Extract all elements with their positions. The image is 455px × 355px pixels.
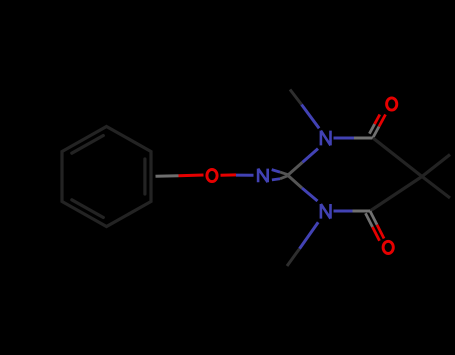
bond C2-N3 (nitrogen half blue): [302, 188, 318, 201]
double bond C6=O3 line 2 carbon half: [369, 124, 374, 134]
bond phenyl-O (carbon half gray): [156, 174, 179, 178]
bond O1-N2 (oxygen half red): [221, 173, 237, 176]
bond C4-C5 (dark C-C): [370, 177, 422, 212]
atom O1 (ether oxygen): [207, 169, 217, 181]
bond C2-N1 (carbon half gray): [288, 162, 303, 175]
double bond C6=O3 line 1 oxygen half: [379, 115, 386, 127]
bond O1-N2 (nitrogen half blue): [236, 174, 254, 177]
atom N1 (top ring nitrogen): [321, 131, 331, 146]
double bond C4=O4 line 1 carbon half: [370, 211, 377, 225]
atom N2 (oxime nitrogen): [258, 169, 268, 183]
bond N3-C4 (nitrogen half blue): [334, 210, 353, 213]
bond N3-C4 (carbon half gray): [353, 210, 371, 213]
bond C6-C5 (dark C-C): [373, 138, 422, 177]
double bond C4=O4 line 2 carbon half: [366, 213, 373, 227]
bond N1-C6 (carbon half gray): [354, 137, 373, 140]
double bond C6=O3 line 1 carbon half: [373, 127, 380, 139]
benzene ring (phenyl, dark C-C bonds): [62, 127, 151, 227]
bond N3-CH3 (carbon half dark): [287, 249, 300, 266]
bond C5-methyl upper stub (dark): [422, 155, 450, 177]
double bond N2=C2 lower line: [272, 179, 280, 180]
double bond C4=O4 line 2 oxygen half: [373, 227, 380, 241]
bond phenyl-O (oxygen half red): [179, 174, 204, 178]
atom N3 (bottom ring nitrogen): [321, 204, 331, 219]
bond C2-N1 (nitrogen half blue): [303, 149, 319, 163]
atom O4 (bottom carbonyl oxygen): [383, 241, 393, 253]
atom O3 (top carbonyl oxygen): [387, 98, 397, 110]
bond N1-CH3 (carbon half dark): [290, 90, 302, 105]
bond C2-N3 (carbon half gray): [288, 176, 302, 189]
double bond C6=O3 line 2 oxygen half: [375, 115, 380, 125]
bond C5-methyl lower stub (dark): [422, 177, 450, 199]
bond N3-CH3 (nitrogen half blue): [300, 222, 319, 249]
double bond N2=C2 upper line: [272, 170, 280, 173]
bond N1-C6 (nitrogen half blue): [334, 137, 355, 140]
double bond C4=O4 line 1 oxygen half: [377, 225, 384, 239]
bond N1-CH3 (nitrogen half blue): [302, 105, 320, 129]
